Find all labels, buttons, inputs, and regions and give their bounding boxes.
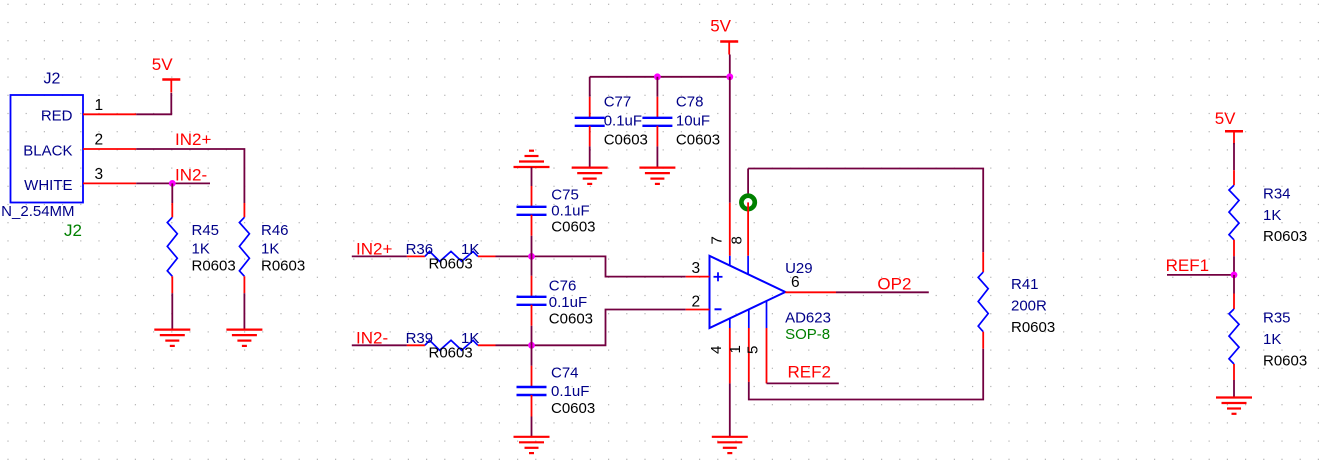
svg-text:1K: 1K	[261, 241, 279, 258]
svg-text:WHITE: WHITE	[24, 177, 72, 194]
capacitor C77	[575, 77, 605, 147]
wire C78 to ground	[656, 146, 658, 167]
svg-text:C77: C77	[604, 94, 632, 111]
footprint C0603 of C78	[676, 132, 720, 149]
ground under R46	[226, 330, 262, 346]
pin 1 lead	[748, 309, 750, 382]
label R35	[1263, 310, 1291, 327]
svg-text:C0603: C0603	[551, 219, 595, 236]
value 200R	[1011, 298, 1047, 315]
ground under C74	[514, 437, 550, 453]
value 10uF of C78	[676, 113, 710, 130]
ground under R35	[1216, 398, 1252, 414]
svg-text:C0603: C0603	[551, 400, 595, 417]
svg-text:7: 7	[709, 236, 726, 244]
wire OP2	[836, 291, 929, 293]
resistor R46	[239, 203, 249, 293]
footprint R0603 of R45	[192, 258, 236, 275]
pin 2 lead	[83, 148, 136, 150]
net label IN2+ (middle)	[356, 239, 392, 258]
wire 5V rail down to pin7	[729, 77, 731, 203]
designator J2	[44, 71, 61, 88]
svg-text:REF2: REF2	[788, 363, 831, 382]
svg-text:1: 1	[95, 97, 104, 114]
value 0.1uF of C74	[551, 383, 589, 400]
junction C75/C76 top	[528, 253, 535, 260]
value 0.1uF of C77	[604, 113, 642, 130]
value 1K of R36	[461, 241, 479, 258]
svg-text:2: 2	[95, 132, 104, 149]
power 5V symbol (right)	[1225, 131, 1243, 144]
svg-text:SOP-8: SOP-8	[785, 326, 830, 343]
footprint R0603 of R41	[1011, 319, 1055, 336]
svg-text:5V: 5V	[152, 55, 173, 74]
wire R45 to ground	[171, 293, 173, 329]
footprint label IN_2.54MM	[0, 203, 75, 220]
wire IN2- stub	[352, 344, 407, 346]
capacitor C78	[642, 77, 672, 147]
svg-text:R35: R35	[1263, 310, 1291, 327]
svg-text:AD623: AD623	[785, 310, 831, 327]
value 0.1uF of C75	[551, 203, 589, 220]
svg-text:C0603: C0603	[676, 132, 720, 149]
pin number 1	[95, 97, 104, 114]
svg-text:IN2+: IN2+	[175, 130, 211, 149]
footprint R0603 of R39	[429, 344, 473, 361]
label R41	[1011, 276, 1039, 293]
net label REF2	[788, 363, 831, 382]
pin number 7	[709, 236, 726, 244]
wire C74 to ground	[531, 417, 533, 437]
op-amp U29 triangle	[710, 256, 786, 328]
svg-text:3: 3	[95, 166, 104, 183]
pin number 2	[692, 294, 701, 311]
resistor R41	[978, 252, 988, 349]
wire junction to R35	[1233, 275, 1235, 294]
wire R36 to opamp pin3	[496, 256, 686, 276]
wire pin1 to 5V	[136, 93, 171, 114]
junction REF1	[1231, 272, 1238, 279]
value 1K of R34	[1263, 207, 1281, 224]
svg-text:R0603: R0603	[1011, 319, 1055, 336]
pin 5 lead	[766, 301, 768, 384]
resistor R35	[1229, 294, 1239, 381]
value 1K of R46	[261, 241, 279, 258]
wire REF1	[1167, 274, 1234, 276]
svg-text:BLACK: BLACK	[23, 143, 72, 160]
svg-text:5V: 5V	[1215, 109, 1236, 128]
footprint SOP-8	[785, 326, 830, 343]
net label IN2- (left)	[175, 166, 207, 185]
svg-text:J2: J2	[64, 221, 82, 240]
svg-text:2: 2	[692, 294, 701, 311]
power 5V label (left)	[152, 55, 173, 74]
footprint R0603 of R36	[429, 256, 473, 273]
capacitor C74	[517, 345, 547, 416]
svg-text:4: 4	[708, 346, 725, 354]
svg-text:R0603: R0603	[1263, 228, 1307, 245]
footprint C0603 of C75	[551, 219, 595, 236]
svg-text:RED: RED	[41, 108, 73, 125]
svg-text:C75: C75	[551, 186, 579, 203]
svg-text:1K: 1K	[192, 241, 210, 258]
wire 5V to junction	[729, 55, 731, 77]
value 1K of R35	[1263, 331, 1281, 348]
wire REF2 from pin5	[767, 382, 839, 384]
svg-text:C74: C74	[551, 365, 579, 382]
wire IN2+ stub	[352, 255, 407, 257]
capacitor C76	[517, 256, 547, 345]
ground under opamp	[712, 437, 748, 453]
footprint R0603 of R35	[1263, 353, 1307, 370]
label R45	[192, 222, 220, 239]
wire pin8 upper	[747, 169, 749, 197]
resistor R45	[167, 203, 177, 293]
power 5V symbol (middle)	[720, 42, 738, 55]
pin number 1	[727, 345, 744, 353]
svg-text:1K: 1K	[1263, 331, 1281, 348]
wire IN2+ from pin2	[136, 149, 244, 203]
wire C77 to ground	[589, 146, 591, 167]
pin 4 lead	[729, 318, 731, 383]
svg-text:3: 3	[692, 260, 701, 277]
label R46	[261, 222, 289, 239]
svg-text:J2: J2	[44, 71, 61, 88]
label R39	[406, 330, 434, 347]
junction at C78	[654, 73, 661, 80]
inverted ground above C75	[514, 151, 550, 167]
svg-text:C0603: C0603	[604, 132, 648, 149]
pin 6 lead	[785, 291, 836, 293]
pin number 3	[692, 260, 701, 277]
svg-text:R46: R46	[261, 222, 289, 239]
svg-text:REF1: REF1	[1166, 256, 1209, 275]
svg-text:R34: R34	[1263, 185, 1291, 202]
power 5V symbol (left)	[162, 80, 180, 93]
pin number 5	[745, 346, 762, 354]
pin name RED	[41, 108, 73, 125]
connector J2 box	[11, 95, 84, 203]
ground under R45	[154, 330, 190, 346]
pin number 3	[95, 166, 104, 183]
wire 5V to R34	[1233, 143, 1235, 170]
pin 3 lead	[83, 182, 136, 184]
net label REF1	[1166, 256, 1209, 275]
wire pin4 to ground	[729, 383, 731, 436]
svg-text:5: 5	[745, 346, 762, 354]
svg-text:C76: C76	[549, 278, 577, 295]
value AD623	[785, 310, 831, 327]
net label OP2	[877, 275, 911, 294]
net label IN2- (middle)	[356, 328, 388, 347]
wire R35 to ground	[1233, 380, 1235, 398]
label C74	[551, 365, 579, 382]
ground under C78	[639, 168, 675, 184]
value 1K of R45	[192, 241, 210, 258]
footprint C0603 of C74	[551, 400, 595, 417]
pin number 8	[729, 236, 746, 244]
label C78	[676, 94, 704, 111]
svg-text:R41: R41	[1011, 276, 1039, 293]
wire pin8 to R41 top	[748, 169, 983, 253]
svg-text:1: 1	[727, 345, 744, 353]
wire R34 to junction	[1233, 256, 1235, 275]
footprint designator J2 green	[64, 221, 82, 240]
svg-text:R0603: R0603	[1263, 353, 1307, 370]
label C76	[549, 278, 577, 295]
plus sign	[714, 272, 723, 281]
junction at 5V rail	[726, 73, 733, 80]
resistor R34	[1229, 170, 1239, 256]
minus sign	[715, 308, 722, 310]
wire C75 to junction	[531, 236, 533, 257]
svg-text:0.1uF: 0.1uF	[551, 383, 589, 400]
svg-text:OP2: OP2	[877, 275, 911, 294]
junction C76/C74	[528, 342, 535, 349]
value 1K of R39	[461, 330, 479, 347]
svg-text:C0603: C0603	[549, 311, 593, 328]
wire top rail to C77	[590, 76, 730, 78]
svg-text:C78: C78	[676, 94, 704, 111]
pin 2 lead	[686, 309, 710, 311]
svg-text:8: 8	[729, 236, 746, 244]
resistor R36	[407, 251, 496, 261]
label R36	[406, 241, 434, 258]
junction on IN2- at R45	[169, 180, 176, 187]
pin 1 lead	[83, 113, 136, 115]
wire IN2- from pin3	[136, 182, 210, 184]
wire R41 bottom to pin1	[749, 349, 983, 400]
svg-text:U29: U29	[785, 260, 813, 277]
label R34	[1263, 185, 1291, 202]
label C75	[551, 186, 579, 203]
pin 8 lead	[747, 202, 749, 274]
pin name BLACK	[23, 143, 72, 160]
svg-text:1K: 1K	[1263, 207, 1281, 224]
svg-text:0.1uF: 0.1uF	[549, 294, 587, 311]
power 5V label (middle)	[710, 17, 731, 36]
power 5V label (right)	[1215, 109, 1236, 128]
footprint R0603 of R34	[1263, 228, 1307, 245]
svg-text:0.1uF: 0.1uF	[551, 203, 589, 220]
pin name WHITE	[24, 177, 72, 194]
designator U29	[785, 260, 813, 277]
svg-text:R0603: R0603	[192, 258, 236, 275]
net label IN2+ (left)	[175, 130, 211, 149]
svg-text:PIN_2.54MM: PIN_2.54MM	[0, 203, 75, 220]
ground under C77	[572, 168, 608, 184]
label C77	[604, 94, 632, 111]
resistor R39	[407, 340, 496, 350]
svg-text:R0603: R0603	[261, 258, 305, 275]
pin number 4	[708, 346, 725, 354]
wire R39 to opamp pin2	[496, 310, 686, 346]
capacitor C75	[517, 186, 547, 236]
value 0.1uF of C76	[549, 294, 587, 311]
wire ground to C75	[531, 167, 533, 186]
svg-text:R45: R45	[192, 222, 220, 239]
pin number 6	[791, 274, 800, 291]
svg-text:200R: 200R	[1011, 298, 1047, 315]
svg-text:R0603: R0603	[429, 256, 473, 273]
footprint R0603 of R46	[261, 258, 305, 275]
pin 7 lead	[729, 203, 731, 266]
svg-text:0.1uF: 0.1uF	[604, 113, 642, 130]
footprint C0603 of C76	[549, 311, 593, 328]
svg-text:10uF: 10uF	[676, 113, 710, 130]
pin 3 lead	[686, 276, 710, 278]
footprint C0603 of C77	[604, 132, 648, 149]
wire R46 to ground	[243, 293, 245, 329]
svg-text:R0603: R0603	[429, 344, 473, 361]
wire junction to R45	[171, 183, 173, 203]
svg-text:IN2-: IN2-	[175, 166, 207, 185]
svg-text:5V: 5V	[710, 17, 731, 36]
pin number 2	[95, 132, 104, 149]
no-ERC marker green donut	[741, 196, 754, 209]
